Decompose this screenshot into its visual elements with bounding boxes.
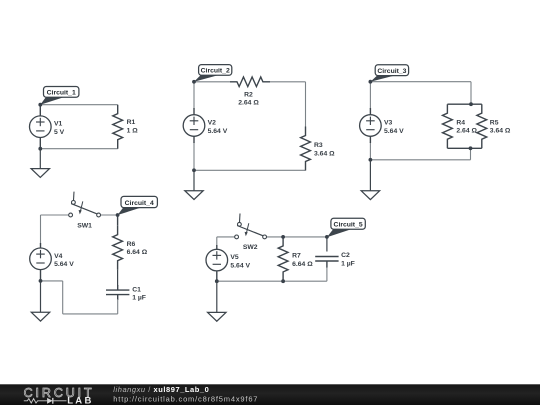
node B junction dot (V1 bottom) — [38, 147, 42, 151]
label R1 value — [127, 119, 139, 134]
wire: Circuit_2 top-right segment — [270, 81, 306, 83]
resistor R2 — [230, 77, 270, 87]
svg-text:V2: V2 — [208, 120, 217, 127]
node F junction dot (top bar) — [469, 102, 473, 106]
wire: V4 top vertical — [40, 215, 42, 244]
wire: parallel bottom bar — [447, 147, 481, 149]
voltage source V1 — [30, 116, 52, 138]
label R7 value — [292, 253, 313, 268]
capacitor C1 top lead — [117, 285, 119, 290]
svg-text:3.64 Ω: 3.64 Ω — [314, 150, 335, 157]
wire: Circuit_3 left vertical (V3 top) — [369, 82, 371, 109]
svg-text:V1: V1 — [54, 121, 63, 128]
svg-text:Circuit_3: Circuit_3 — [377, 68, 406, 75]
ground G5 — [208, 312, 226, 321]
svg-text:R5: R5 — [490, 119, 499, 126]
ground G1 lead — [39, 149, 41, 169]
voltage source V5 — [206, 249, 228, 271]
svg-text:V3: V3 — [384, 120, 393, 127]
node K junction dot (R7 top) — [281, 235, 285, 239]
voltage source V2 leads — [193, 108, 195, 143]
node L junction dot (C2 top) — [325, 235, 329, 239]
svg-text:R4: R4 — [456, 119, 465, 126]
switch SW1 — [69, 192, 101, 217]
wire: Circuit_2 bottom rail — [194, 169, 306, 171]
ground G4 lead — [40, 281, 42, 312]
node J junction dot (V4 bottom) — [39, 279, 43, 283]
footer author line — [113, 385, 209, 394]
svg-text:1 µF: 1 µF — [341, 261, 355, 268]
wire: V5 top vertical — [216, 237, 218, 246]
node M junction dot (V5 bottom) — [215, 279, 219, 283]
wire: R6 to C1 — [117, 270, 119, 286]
ground G5 lead — [216, 281, 218, 312]
node E junction dot (V3 top) — [369, 80, 373, 84]
wire: C2 bottom vertical — [326, 267, 328, 281]
svg-text:C2: C2 — [341, 252, 350, 259]
wire: Circuit_1 bottom rail — [40, 148, 117, 150]
label V5 value — [230, 254, 250, 269]
svg-text:lihangxu / xul897_Lab_0: lihangxu / xul897_Lab_0 — [113, 385, 209, 394]
voltage source V3 — [360, 115, 382, 137]
ground G2 lead — [193, 170, 195, 190]
wire: V3 bottom to rail — [369, 142, 371, 160]
label V3 value — [384, 120, 404, 135]
node N junction dot (R7 bottom) — [281, 279, 285, 283]
node G junction dot (bottom bar) — [469, 146, 473, 150]
wire: Circuit_4 bottom rail — [63, 313, 118, 315]
resistor R5 — [477, 104, 487, 148]
resistor R1 — [113, 105, 123, 149]
label R2 value — [238, 91, 259, 106]
label V2 value — [208, 120, 228, 135]
wire: node K to node L — [283, 236, 327, 238]
wire: Circuit_5 bottom rail — [217, 280, 327, 282]
wire: node J to left vertical — [41, 280, 63, 282]
svg-text:3.64 Ω: 3.64 Ω — [490, 128, 511, 135]
label SW1 — [77, 222, 92, 229]
capacitor C2 bottom lead — [326, 261, 328, 268]
resistor R4 — [443, 104, 453, 148]
wire: Circuit_2 right vertical — [305, 82, 307, 127]
label R6 value — [127, 241, 148, 256]
capacitor C1 — [106, 290, 129, 295]
callout Circuit_5 — [327, 218, 365, 237]
wire: Circuit_2 left vertical (V2 top) — [193, 82, 195, 109]
callout Circuit_4 — [118, 196, 158, 215]
svg-text:V4: V4 — [54, 253, 63, 260]
wire: Circuit_2 top-left segment — [194, 81, 230, 83]
svg-text:Circuit_1: Circuit_1 — [47, 90, 76, 97]
voltage source V1 leads — [39, 105, 41, 149]
voltage source V3 leads — [369, 108, 371, 143]
label V1 value — [54, 121, 65, 136]
wire: bottom bar to bottom rail — [470, 148, 472, 160]
wire: Circuit_3 top rail — [370, 81, 471, 83]
CircuitLab logo wordmark LAB — [67, 396, 93, 405]
svg-text:Circuit_4: Circuit_4 — [125, 200, 154, 207]
svg-text:R6: R6 — [127, 241, 136, 248]
callout Circuit_3 — [370, 65, 408, 82]
voltage source V4 leads — [40, 243, 42, 281]
CircuitLab logo wordmark CIRCUIT — [24, 386, 95, 400]
resistor R7 — [278, 237, 288, 281]
svg-text:C1: C1 — [132, 286, 141, 293]
node C junction dot (V2 top) — [192, 80, 196, 84]
svg-text:2.64 Ω: 2.64 Ω — [238, 100, 259, 107]
wire: Circuit_3 bottom rail — [370, 159, 470, 161]
svg-text:LAB: LAB — [67, 396, 93, 405]
svg-text:5.64 V: 5.64 V — [230, 262, 250, 269]
label C1 value — [132, 286, 146, 301]
label V4 value — [54, 253, 74, 268]
svg-text:R1: R1 — [127, 119, 136, 126]
wire: parallel top bar — [447, 103, 481, 105]
wire: V4 top horizontal to SW1 — [41, 214, 69, 216]
svg-text:R7: R7 — [292, 253, 301, 260]
label R4 value — [456, 119, 477, 134]
wire: V2 bottom to rail — [193, 142, 195, 170]
svg-text:Circuit_2: Circuit_2 — [201, 68, 230, 75]
resistor R3 — [301, 127, 311, 171]
svg-text:5.64 V: 5.64 V — [208, 128, 228, 135]
resistor R6 lead from node I — [117, 215, 119, 226]
svg-text:6.64 Ω: 6.64 Ω — [292, 261, 313, 268]
switch SW2 — [235, 214, 267, 239]
node H junction dot (V3 bottom) — [369, 158, 373, 162]
capacitor C1 bottom lead — [117, 295, 119, 300]
ground G3 lead — [369, 160, 371, 191]
svg-text:1 µF: 1 µF — [132, 295, 146, 302]
svg-text:SW2: SW2 — [243, 244, 258, 251]
label R3 value — [314, 142, 335, 157]
voltage source V2 — [183, 115, 205, 137]
ground G4 — [31, 312, 49, 321]
svg-text:R2: R2 — [244, 91, 253, 98]
label R5 value — [490, 119, 511, 134]
svg-text:SW1: SW1 — [77, 222, 92, 229]
ground G3 — [361, 191, 379, 200]
wire: SW1 to node I — [101, 214, 118, 216]
node A junction dot (V1 top) — [38, 103, 42, 107]
wire: V5 top horizontal to SW2 — [217, 236, 235, 238]
svg-text:5.64 V: 5.64 V — [54, 261, 74, 268]
node D junction dot (V2 bottom) — [192, 168, 196, 172]
footer bar — [0, 384, 540, 405]
svg-text:5 V: 5 V — [54, 129, 65, 136]
wire: node L down to C2 — [326, 237, 328, 252]
node I junction dot (R6 top) — [116, 213, 120, 217]
svg-text:1 Ω: 1 Ω — [127, 127, 139, 134]
ground G2 — [185, 191, 203, 200]
svg-text:6.64 Ω: 6.64 Ω — [127, 249, 148, 256]
svg-text:2.64 Ω: 2.64 Ω — [456, 128, 477, 135]
svg-text:R3: R3 — [314, 142, 323, 149]
wire: bottom rail left vertical — [62, 281, 64, 314]
callout Circuit_1 — [40, 87, 79, 105]
voltage source V5 leads — [216, 245, 218, 281]
svg-text:Circuit_5: Circuit_5 — [334, 222, 363, 229]
wire: SW2 to node K — [267, 236, 284, 238]
capacitor C2 — [315, 257, 338, 262]
label SW2 — [243, 244, 258, 251]
wire: Circuit_3 feed down to parallel pair — [470, 82, 472, 105]
svg-text:V5: V5 — [230, 254, 239, 261]
svg-text:5.64 V: 5.64 V — [384, 128, 404, 135]
svg-text:http://circuitlab.com/c8r8f5m4: http://circuitlab.com/c8r8f5m4x9f67 — [113, 394, 258, 403]
callout Circuit_2 — [194, 65, 232, 82]
footer url line — [113, 394, 258, 403]
voltage source V4 — [30, 248, 52, 270]
wire: C1 bottom vertical — [117, 299, 119, 314]
label C2 value — [341, 252, 355, 267]
wire: Circuit_1 top rail node A to R1 — [40, 104, 117, 106]
resistor R6 — [113, 226, 123, 270]
ground G1 — [31, 169, 49, 178]
CircuitLab logo resistor-diode glyph — [24, 398, 67, 404]
